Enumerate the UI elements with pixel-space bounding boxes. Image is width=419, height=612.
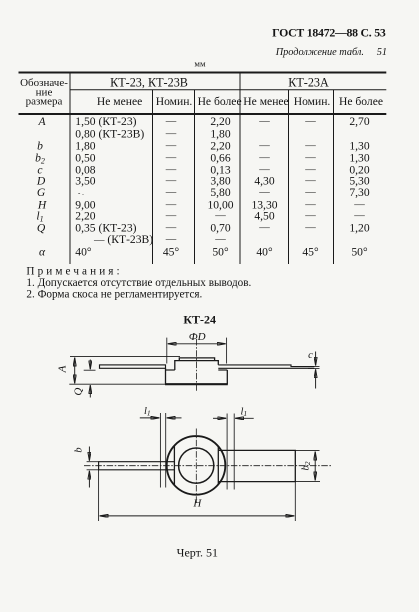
svg-text:—: — xyxy=(165,140,177,151)
svg-text:3,50: 3,50 xyxy=(75,175,95,188)
svg-text:b: b xyxy=(73,447,84,452)
top view: vertical centerline xyxy=(195,429,197,503)
svg-text:45°: 45° xyxy=(302,246,319,259)
svg-text:—: — xyxy=(304,116,316,127)
svg-text:—: — xyxy=(258,153,270,164)
svg-text:5,80: 5,80 xyxy=(210,186,230,199)
svg-text:— (КТ-23В): — (КТ-23В) xyxy=(93,233,153,246)
table body: col4 values xyxy=(207,115,233,259)
svg-text:Черт. 51: Черт. 51 xyxy=(177,546,218,560)
svg-text:50°: 50° xyxy=(351,246,368,259)
table body: col2 values xyxy=(75,115,153,259)
dimension b2: extension lines xyxy=(295,450,320,481)
svg-text:—: — xyxy=(165,176,177,187)
svg-text:мм: мм xyxy=(194,59,206,69)
svg-text:b2: b2 xyxy=(301,461,313,470)
dimension ФD: extension lines xyxy=(167,338,227,364)
svg-text:1,50 (КТ-23): 1,50 (КТ-23) xyxy=(75,115,136,128)
dimension c: label xyxy=(308,350,313,361)
table divider group xyxy=(239,73,241,265)
svg-text:—: — xyxy=(165,129,177,140)
svg-text:размера: размера xyxy=(26,96,63,108)
top view: left lead xyxy=(99,462,175,470)
side view: flange ledges xyxy=(166,369,228,371)
svg-text:—: — xyxy=(304,211,316,222)
dimension l1 left: label xyxy=(144,406,151,418)
units label mm xyxy=(194,59,206,69)
svg-text:10,00: 10,00 xyxy=(207,198,233,211)
dimension Q: arrows outside xyxy=(89,360,91,398)
svg-text:2,20: 2,20 xyxy=(210,115,230,128)
svg-text:—: — xyxy=(258,187,270,198)
dimension b: label xyxy=(73,447,84,452)
dimension b2: dimension line xyxy=(314,452,316,481)
svg-text:—: — xyxy=(304,164,316,175)
svg-text:Не более: Не более xyxy=(339,95,383,108)
svg-text:4,50: 4,50 xyxy=(254,210,274,223)
dimension Q: label xyxy=(73,388,85,396)
svg-text:Продолжение табл.: Продолжение табл. xyxy=(275,47,364,58)
svg-text:4,30: 4,30 xyxy=(254,175,274,188)
table body: col3 values xyxy=(163,116,180,259)
svg-text:—: — xyxy=(165,211,177,222)
svg-text:КТ-23, КТ-23В: КТ-23, КТ-23В xyxy=(110,76,188,90)
svg-text:—: — xyxy=(165,116,177,127)
svg-text:- .: - . xyxy=(78,189,84,197)
svg-text:—: — xyxy=(165,164,177,175)
svg-text:G: G xyxy=(37,186,46,199)
svg-text:—: — xyxy=(165,199,177,210)
dimension b: arrows outside xyxy=(88,447,90,488)
table divider col1 xyxy=(69,73,71,265)
svg-text:—: — xyxy=(353,199,365,210)
table divider col6 xyxy=(333,90,335,264)
svg-text:2. Форма скоса не регламентиру: 2. Форма скоса не регламентируется. xyxy=(26,288,202,300)
top view: left chord (cap edge) xyxy=(173,446,175,485)
table divider col2 xyxy=(152,90,154,264)
svg-text:—: — xyxy=(214,211,226,222)
svg-text:45°: 45° xyxy=(163,246,180,259)
svg-text:—: — xyxy=(304,140,316,151)
svg-text:—: — xyxy=(353,211,365,222)
table divider col3 xyxy=(194,90,196,264)
svg-text:Q: Q xyxy=(73,388,85,396)
svg-text:Q: Q xyxy=(37,221,46,234)
svg-text:—: — xyxy=(258,140,270,151)
svg-text:ГОСТ 18472—88 С. 53: ГОСТ 18472—88 С. 53 xyxy=(272,25,386,39)
svg-text:1,30: 1,30 xyxy=(349,139,369,152)
dimension l1 right: arrows outside xyxy=(213,417,254,419)
svg-text:b: b xyxy=(37,139,43,152)
note 1 xyxy=(26,277,251,289)
note 2 xyxy=(26,288,202,300)
svg-text:—: — xyxy=(304,222,316,233)
table body: col7 values xyxy=(349,115,369,259)
svg-text:—: — xyxy=(214,234,226,245)
dimension ФD: dimension line xyxy=(168,343,226,345)
page header: ГОСТ number xyxy=(272,25,386,39)
svg-text:КТ-23А: КТ-23А xyxy=(288,76,329,90)
dimension c: extension lines xyxy=(308,367,320,369)
dimension H: extension lines xyxy=(99,470,296,521)
svg-text:—: — xyxy=(165,234,177,245)
svg-text:α: α xyxy=(39,246,46,259)
svg-text:51: 51 xyxy=(377,47,387,58)
svg-text:Примечания:: Примечания: xyxy=(26,265,122,277)
notes heading xyxy=(26,265,122,277)
dimension ФD: label xyxy=(189,331,206,343)
table subheader underline xyxy=(19,113,387,115)
side view: flange body xyxy=(165,368,228,384)
svg-text:c: c xyxy=(308,350,313,361)
svg-text:A: A xyxy=(57,365,69,373)
svg-text:1,80: 1,80 xyxy=(75,139,95,152)
svg-text:1,20: 1,20 xyxy=(349,221,369,234)
dimension l1 right: label xyxy=(241,407,248,419)
table body: col6 values xyxy=(302,116,319,259)
svg-text:7,30: 7,30 xyxy=(349,186,369,199)
svg-text:Не менее: Не менее xyxy=(97,95,142,108)
table top border xyxy=(19,72,387,74)
top view: right chord (cap edge) xyxy=(217,446,219,485)
dimension H: dimension line xyxy=(100,515,295,517)
svg-text:—: — xyxy=(304,153,316,164)
figure caption xyxy=(177,546,218,560)
drawing title KT-24 xyxy=(183,313,216,327)
dimension A: extension line top xyxy=(70,356,180,358)
side view: left lead xyxy=(100,365,166,368)
dimension c: arrows outside xyxy=(315,352,317,389)
svg-text:50°: 50° xyxy=(212,246,229,259)
svg-text:1. Допускается отсутствие отде: 1. Допускается отсутствие отдельных выво… xyxy=(26,277,251,289)
dimension A: dimension line with arrows xyxy=(74,358,76,384)
svg-text:—: — xyxy=(304,187,316,198)
table divider col5 xyxy=(288,90,290,264)
svg-text:—: — xyxy=(165,153,177,164)
svg-text:—: — xyxy=(258,164,270,175)
svg-text:l1: l1 xyxy=(241,407,248,419)
svg-text:ФD: ФD xyxy=(189,331,206,343)
svg-text:Не менее: Не менее xyxy=(243,95,288,108)
svg-text:l1: l1 xyxy=(144,406,151,418)
svg-text:КТ-24: КТ-24 xyxy=(183,313,216,327)
table group header underline xyxy=(70,89,386,91)
page header: continuation note xyxy=(275,47,387,58)
side view: cap body xyxy=(175,361,219,370)
svg-text:—: — xyxy=(258,222,270,233)
side view: centerline xyxy=(195,339,197,392)
group headers xyxy=(110,76,329,90)
svg-text:—: — xyxy=(165,187,177,198)
svg-text:2,20: 2,20 xyxy=(210,139,230,152)
svg-text:40°: 40° xyxy=(256,246,273,259)
column 1 header xyxy=(20,77,68,108)
svg-text:—: — xyxy=(258,116,270,127)
dimension A: extension line bottom xyxy=(69,383,165,385)
table body: designators column xyxy=(35,115,47,259)
top view: horizontal centerline xyxy=(84,465,331,467)
svg-text:Не более: Не более xyxy=(198,95,242,108)
dimension A: label xyxy=(57,365,69,373)
top view: right lead xyxy=(218,450,295,481)
svg-text:0,70: 0,70 xyxy=(210,221,230,234)
dimension l1 right: extension lines xyxy=(227,414,234,490)
svg-text:Номин.: Номин. xyxy=(156,95,193,108)
svg-text:—: — xyxy=(165,222,177,233)
svg-text:—: — xyxy=(304,199,316,210)
dimension H: label xyxy=(192,498,202,510)
dimension Q: extension line xyxy=(84,369,96,371)
svg-text:40°: 40° xyxy=(75,246,92,259)
sub headers xyxy=(97,95,383,108)
table body: col5 values xyxy=(251,116,277,259)
dimension l1 left: arrows outside xyxy=(140,417,182,419)
dimension l1 left: extension lines xyxy=(160,413,165,488)
dimension b2: label xyxy=(301,461,313,470)
svg-text:—: — xyxy=(304,176,316,187)
side view: right lead with bevelled end xyxy=(218,365,314,368)
svg-text:Номин.: Номин. xyxy=(294,95,331,108)
svg-text:2,70: 2,70 xyxy=(349,115,369,128)
side view: top plate of cap xyxy=(179,358,214,361)
svg-text:A: A xyxy=(37,115,46,128)
svg-text:H: H xyxy=(192,498,202,510)
top view: outer circle (flange) xyxy=(167,436,226,495)
top view: inner circle (cap) xyxy=(179,448,214,483)
dimension b: extension lines xyxy=(87,462,99,470)
